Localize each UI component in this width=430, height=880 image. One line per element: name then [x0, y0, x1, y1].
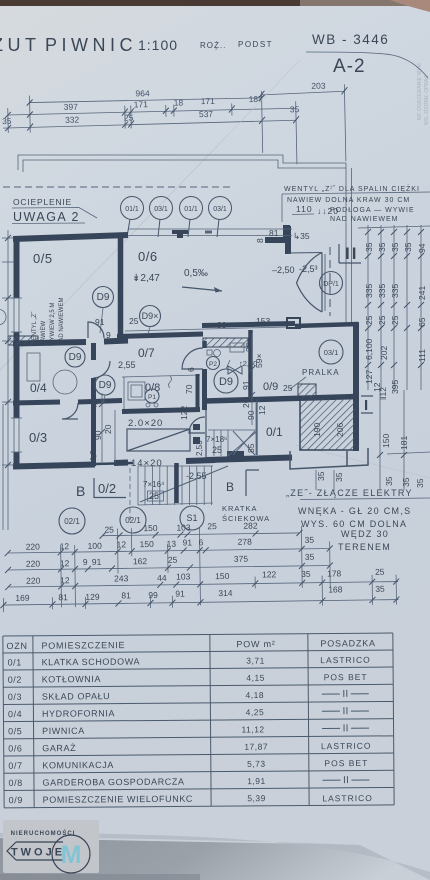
svg-text:0/3: 0/3 [29, 430, 47, 445]
svg-text:35: 35 [364, 242, 374, 252]
svg-text:B: B [226, 480, 234, 494]
svg-text:↓↓20: ↓↓20 [317, 206, 339, 216]
svg-text:0/5: 0/5 [33, 251, 53, 266]
svg-text:110: 110 [296, 204, 313, 214]
svg-text:81: 81 [121, 590, 131, 600]
svg-text:6,100: 6,100 [364, 338, 374, 360]
svg-text:9: 9 [83, 557, 88, 567]
svg-text:35: 35 [415, 478, 425, 488]
svg-text:I: I [364, 397, 368, 414]
svg-text:‒2,50: ‒2,50 [272, 265, 295, 275]
svg-text:03/1: 03/1 [213, 206, 227, 213]
svg-text:KLATKA SCHODOWA: KLATKA SCHODOWA [42, 656, 141, 667]
svg-text:81: 81 [269, 228, 279, 238]
svg-text:P2: P2 [209, 361, 217, 368]
svg-text:„ZE˝- ZŁĄCZE ELEKTRY: „ZE˝- ZŁĄCZE ELEKTRY [286, 488, 413, 498]
svg-text:25: 25 [149, 491, 159, 501]
svg-text:25: 25 [129, 316, 139, 326]
svg-text:01/1: 01/1 [125, 206, 139, 213]
svg-text:122: 122 [262, 569, 277, 579]
svg-text:190: 190 [312, 423, 322, 437]
svg-text:85: 85 [246, 443, 256, 453]
svg-text:103: 103 [176, 571, 191, 581]
svg-text:0/5: 0/5 [8, 726, 22, 736]
svg-text:26: 26 [241, 398, 251, 408]
svg-text:91: 91 [175, 589, 185, 599]
svg-text:2.0×20: 2.0×20 [128, 418, 163, 429]
svg-text:‖12: ‖12 [378, 387, 388, 400]
svg-text:171: 171 [134, 99, 149, 109]
svg-text:220: 220 [26, 559, 41, 569]
svg-text:169: 169 [15, 593, 30, 603]
svg-text:1,91: 1,91 [247, 776, 266, 786]
svg-text:44: 44 [157, 573, 167, 583]
svg-text:35: 35 [316, 471, 326, 481]
svg-text:P1: P1 [148, 394, 156, 401]
svg-text:03/1: 03/1 [324, 348, 339, 357]
svg-text:25: 25 [364, 315, 374, 325]
svg-text:2,55: 2,55 [118, 360, 136, 370]
svg-text:35: 35 [375, 584, 385, 594]
svg-text:6: 6 [186, 367, 196, 372]
svg-text:314: 314 [218, 588, 233, 598]
svg-text:ZUT: ZUT [0, 35, 41, 55]
svg-text:NAWIEW DOLNA KRAW 30 CM: NAWIEW DOLNA KRAW 30 CM [287, 197, 410, 204]
svg-text:25: 25 [283, 383, 293, 393]
svg-text:0/1: 0/1 [8, 657, 22, 667]
svg-text:150: 150 [140, 539, 155, 549]
svg-text:150: 150 [143, 523, 158, 533]
svg-text:7×16⁴: 7×16⁴ [143, 480, 165, 489]
svg-text:90: 90 [93, 430, 103, 440]
svg-text:D9: D9 [219, 376, 233, 388]
svg-text:II: II [345, 244, 358, 263]
svg-text:POMIESZCZENIE: POMIESZCZENIE [41, 640, 125, 651]
svg-text:8: 8 [255, 238, 265, 243]
svg-text:150: 150 [381, 434, 391, 448]
svg-text:GARAŻ: GARAŻ [42, 743, 76, 753]
svg-text:220: 220 [26, 542, 41, 552]
svg-text:25: 25 [207, 521, 217, 531]
svg-text:12: 12 [60, 558, 70, 568]
svg-text:02/1: 02/1 [125, 516, 141, 525]
svg-text:WENTYL „Zˡ˝ DLA SPALIN CIĘŻKI: WENTYL „Zˡ˝ DLA SPALIN CIĘŻKI [284, 184, 420, 193]
svg-text:0/6: 0/6 [138, 249, 158, 264]
svg-text:25: 25 [212, 445, 222, 455]
svg-text:KOTŁOWNIA: KOTŁOWNIA [42, 674, 101, 684]
svg-text:94: 94 [417, 243, 427, 253]
svg-text:14×20: 14×20 [131, 458, 163, 469]
svg-text:65: 65 [417, 317, 427, 327]
svg-text:OCIEPLENIE: OCIEPLENIE [13, 197, 72, 207]
svg-text:03/1: 03/1 [154, 206, 168, 213]
svg-text:964: 964 [135, 88, 150, 98]
svg-text:02/1: 02/1 [64, 517, 80, 526]
svg-text:91: 91 [92, 557, 102, 567]
svg-text:278: 278 [238, 537, 253, 547]
svg-text:91: 91 [95, 317, 105, 327]
svg-text:111: 111 [417, 349, 427, 362]
svg-text:25: 25 [104, 525, 114, 535]
svg-text:NP. OGRZEWANIE WYM: NP. OGRZEWANIE WYM [417, 63, 423, 120]
svg-text:12: 12 [60, 541, 70, 551]
svg-text:91: 91 [241, 380, 251, 390]
svg-text:129: 129 [85, 592, 100, 602]
svg-text:25: 25 [375, 567, 385, 577]
svg-text:335: 335 [377, 284, 387, 298]
svg-text:D9: D9 [97, 292, 110, 303]
svg-text:0,5‰: 0,5‰ [184, 268, 208, 279]
svg-text:TERENEM: TERENEM [338, 542, 391, 552]
svg-text:282: 282 [243, 521, 258, 531]
svg-text:35: 35 [334, 472, 344, 482]
svg-text:PRALKA: PRALKA [302, 368, 340, 377]
svg-text:0/8: 0/8 [8, 778, 22, 788]
svg-text:162: 162 [133, 556, 148, 566]
svg-text:4,0: 4,0 [88, 450, 98, 462]
svg-text:35: 35 [305, 552, 315, 562]
svg-text:81: 81 [58, 592, 68, 602]
svg-text:POW m²: POW m² [236, 639, 275, 649]
svg-text:WYWIEW 2,5 M: WYWIEW 2,5 M [50, 303, 56, 346]
svg-text:0/9: 0/9 [9, 795, 23, 805]
svg-text:153: 153 [256, 316, 270, 326]
svg-text:7×18⁶: 7×18⁶ [206, 435, 227, 444]
svg-text:243: 243 [114, 573, 129, 583]
svg-text:332: 332 [65, 115, 80, 125]
svg-text:35: 35 [305, 535, 315, 545]
svg-text:100: 100 [88, 541, 103, 551]
svg-text:25: 25 [168, 555, 178, 565]
svg-text:6: 6 [199, 537, 204, 547]
svg-text:POSADZKA: POSADZKA [320, 638, 375, 648]
svg-text:35: 35 [403, 242, 413, 252]
svg-text:375: 375 [234, 554, 249, 564]
svg-text:PODST: PODST [238, 40, 273, 49]
svg-text:WĘDZ 30: WĘDZ 30 [341, 529, 389, 539]
svg-text:3,71: 3,71 [246, 656, 265, 666]
svg-text:35: 35 [301, 569, 311, 579]
svg-text:13: 13 [167, 539, 177, 549]
svg-text:181: 181 [399, 436, 409, 450]
svg-text:202: 202 [379, 346, 389, 360]
svg-text:NAD NAWIEWEM: NAD NAWIEWEM [330, 216, 399, 223]
svg-text:TWOJE: TWOJE [11, 847, 65, 859]
svg-text:01/1: 01/1 [184, 206, 198, 213]
svg-text:25: 25 [390, 315, 400, 325]
svg-text:90: 90 [246, 410, 256, 420]
svg-text:103: 103 [176, 522, 191, 532]
svg-text:35: 35 [390, 242, 400, 252]
svg-text:335: 335 [364, 284, 374, 298]
svg-text:335: 335 [390, 284, 400, 298]
svg-text:25: 25 [377, 315, 387, 325]
svg-text:DP/1: DP/1 [323, 281, 339, 288]
svg-text:PIWNICA: PIWNICA [42, 726, 85, 736]
svg-text:11,12: 11,12 [241, 724, 264, 734]
svg-text:POS BET: POS BET [324, 672, 368, 682]
svg-text:SKŁAD OPAŁU: SKŁAD OPAŁU [42, 691, 111, 702]
svg-text:0/2: 0/2 [8, 675, 22, 685]
svg-text:178: 178 [327, 568, 342, 578]
svg-text:HYDROFORNIA: HYDROFORNIA [42, 708, 115, 719]
svg-text:0/2: 0/2 [98, 481, 116, 496]
svg-text:150: 150 [215, 571, 230, 581]
svg-text:2,53: 2,53 [195, 440, 204, 456]
svg-text:12: 12 [117, 539, 127, 549]
svg-text:0/7: 0/7 [8, 761, 22, 771]
svg-text:PODŁOGA — WYWIE: PODŁOGA — WYWIE [330, 207, 415, 214]
svg-text:35: 35 [384, 476, 394, 486]
svg-text:WG. OSOBN. OPRAC: WG. OSOBN. OPRAC [424, 75, 430, 125]
svg-text:4,0: 4,0 [89, 398, 99, 410]
svg-text:B: B [76, 483, 85, 499]
svg-text:5,39: 5,39 [247, 793, 266, 803]
svg-text:127: 127 [364, 370, 374, 384]
svg-text:35: 35 [290, 104, 300, 114]
svg-text:4,15: 4,15 [246, 673, 265, 683]
svg-text:POS BET: POS BET [324, 758, 368, 768]
svg-text:4,25: 4,25 [246, 707, 265, 717]
svg-text:1:100: 1:100 [138, 37, 178, 53]
svg-text:122: 122 [179, 406, 189, 420]
svg-text:18: 18 [174, 97, 184, 107]
svg-text:OZN: OZN [6, 641, 27, 651]
svg-text:M: M [61, 841, 82, 869]
svg-text:0/4: 0/4 [30, 381, 47, 395]
svg-text:220: 220 [26, 576, 41, 586]
svg-text:397: 397 [64, 102, 79, 112]
svg-text:241: 241 [417, 286, 427, 300]
svg-text:0/1: 0/1 [266, 425, 283, 439]
svg-text:395: 395 [390, 380, 400, 394]
svg-text:KOMUNIKACJA: KOMUNIKACJA [42, 760, 114, 771]
svg-text:A-2: A-2 [333, 56, 366, 77]
svg-text:WENTYL „Z˝: WENTYL „Z˝ [32, 311, 38, 346]
svg-text:LASTRICO: LASTRICO [321, 741, 372, 751]
svg-text:35: 35 [401, 477, 411, 487]
svg-text:91: 91 [183, 537, 193, 547]
svg-text:NAWIEW: NAWIEW [41, 321, 47, 346]
svg-text:D9: D9 [99, 380, 112, 391]
svg-text:↡2,47: ↡2,47 [132, 273, 160, 284]
svg-text:KRATKA: KRATKA [222, 504, 257, 513]
svg-text:↳35: ↳35 [293, 231, 310, 241]
svg-text:POMIESZCZENIE WIELOFUNKC: POMIESZCZENIE WIELOFUNKC [43, 794, 193, 805]
svg-text:NAD NAWIEWEM: NAD NAWIEWEM [59, 298, 65, 346]
svg-text:59×: 59× [254, 354, 264, 368]
svg-text:35: 35 [2, 116, 12, 126]
svg-text:35: 35 [377, 242, 387, 252]
svg-text:PIWNIC: PIWNIC [45, 35, 137, 55]
svg-text:203: 203 [311, 81, 326, 91]
svg-text:UWAGA 2: UWAGA 2 [13, 210, 80, 224]
svg-text:D9: D9 [69, 352, 82, 363]
svg-text:LASTRICO: LASTRICO [320, 655, 371, 665]
svg-text:LASTRICO: LASTRICO [322, 793, 373, 803]
svg-text:99: 99 [148, 590, 158, 600]
svg-text:0/9: 0/9 [263, 381, 278, 393]
svg-text:ROŻ̯..: ROŻ̯.. [200, 41, 226, 50]
svg-text:206: 206 [335, 423, 345, 437]
svg-text:0/4: 0/4 [8, 709, 22, 719]
svg-text:70: 70 [184, 384, 194, 394]
svg-text:171: 171 [201, 96, 216, 106]
svg-text:D9×: D9× [142, 311, 159, 321]
svg-text:WNĘKA - GŁ 20 CM,S: WNĘKA - GŁ 20 CM,S [298, 506, 411, 516]
svg-text:12: 12 [60, 575, 70, 585]
svg-text:17,87: 17,87 [244, 742, 268, 752]
svg-text:168: 168 [328, 584, 343, 594]
svg-text:WB - 3446: WB - 3446 [312, 32, 389, 47]
svg-text:0/7: 0/7 [138, 346, 155, 360]
svg-text:12: 12 [257, 405, 267, 415]
svg-text:GARDEROBA GOSPODARCZA: GARDEROBA GOSPODARCZA [42, 777, 184, 788]
svg-text:4,18: 4,18 [245, 690, 264, 700]
svg-text:0/3: 0/3 [8, 692, 22, 702]
svg-text:5,73: 5,73 [247, 759, 266, 769]
svg-text:WYS. 60 CM DOLNA: WYS. 60 CM DOLNA [301, 519, 407, 529]
svg-text:537: 537 [199, 109, 214, 119]
svg-text:9: 9 [106, 330, 111, 340]
svg-text:-2,5³: -2,5³ [299, 264, 318, 274]
svg-text:26: 26 [244, 342, 254, 352]
svg-text:0/6: 0/6 [8, 743, 22, 753]
